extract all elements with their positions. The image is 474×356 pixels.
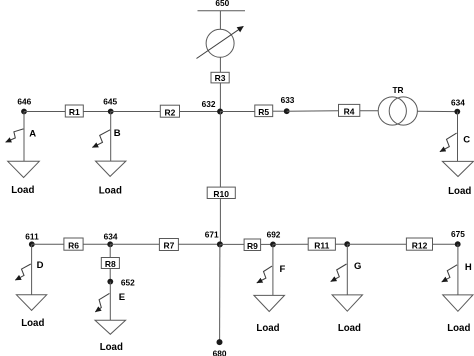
wire R5 to node 633 — [273, 110, 287, 112]
load G zigzag arrow — [331, 264, 347, 282]
load A triangle — [8, 161, 40, 177]
svg-text:R8: R8 — [105, 259, 116, 269]
junction node (load G) — [344, 241, 350, 247]
svg-text:R7: R7 — [163, 241, 174, 251]
load F — [254, 244, 286, 333]
svg-text:Load: Load — [11, 185, 34, 196]
regulator arrow — [197, 26, 244, 58]
wire 646 to R1 — [24, 111, 65, 113]
wire 692 to R11 — [273, 243, 308, 245]
resistor R9 — [244, 239, 261, 251]
transformer TR — [378, 97, 417, 125]
svg-text:645: 645 — [103, 97, 117, 107]
wire R3 to node 632 — [219, 83, 221, 112]
load F triangle — [254, 295, 285, 311]
wire R12 to node 675 — [433, 243, 458, 245]
wire R2 to node 632 — [180, 111, 221, 113]
svg-text:Load: Load — [447, 323, 470, 334]
svg-text:H: H — [465, 262, 472, 273]
wire 632 to R5 — [220, 111, 255, 113]
svg-text:D: D — [37, 260, 44, 271]
node 611 — [29, 241, 35, 247]
node 633 — [284, 108, 290, 114]
resistor R10 — [207, 187, 235, 199]
load D zigzag arrow — [15, 264, 30, 280]
resistor R2 — [160, 105, 179, 117]
wire junction to R12 — [347, 243, 406, 245]
node 634 (bottom) — [107, 241, 113, 247]
wire R4 to transformer TR — [360, 110, 379, 112]
svg-text:A: A — [29, 129, 36, 140]
load H triangle — [443, 295, 473, 311]
load D — [15, 244, 46, 329]
wire 634 top down — [457, 112, 459, 162]
wire R10 to node 671 — [219, 199, 221, 245]
load E — [95, 282, 126, 353]
bus 650 bar — [198, 10, 246, 12]
svg-text:611: 611 — [25, 231, 39, 241]
svg-text:G: G — [354, 261, 361, 272]
svg-text:675: 675 — [451, 229, 465, 239]
load B — [92, 112, 126, 197]
wire 645 down — [110, 112, 112, 162]
resistor R7 — [159, 239, 178, 251]
svg-text:R10: R10 — [213, 189, 229, 199]
node 692 — [270, 242, 276, 248]
svg-text:Load: Load — [21, 318, 44, 329]
node 675 — [455, 241, 461, 247]
svg-text:632: 632 — [202, 99, 216, 109]
wire regulator to R3 — [219, 57, 221, 72]
svg-text:R2: R2 — [164, 107, 175, 117]
node 671 — [217, 241, 223, 247]
svg-text:Load: Load — [338, 323, 361, 334]
load B triangle — [96, 161, 126, 176]
wire 671 to R9 — [220, 243, 244, 245]
wire 611 to R6 — [32, 243, 64, 245]
node 632 — [217, 109, 223, 115]
svg-text:R4: R4 — [344, 107, 355, 117]
wire bus650 to regulator — [219, 11, 221, 30]
svg-text:634: 634 — [451, 98, 465, 108]
wire 645 to R2 — [111, 111, 161, 113]
load A — [6, 112, 40, 196]
node 646 — [21, 109, 27, 115]
svg-text:R3: R3 — [215, 73, 226, 83]
load E triangle — [95, 320, 126, 334]
resistor R1 — [65, 105, 83, 117]
svg-text:R5: R5 — [258, 107, 269, 117]
resistor R11 — [308, 238, 335, 250]
wire 675 down — [457, 244, 459, 295]
resistor R3 — [211, 72, 229, 83]
load G — [331, 244, 363, 334]
svg-text:650: 650 — [215, 0, 229, 8]
node 634 (top) — [454, 109, 460, 115]
wire R6 to node 634 bottom — [83, 243, 110, 245]
wire TR to node 634 — [417, 110, 457, 112]
wire R11 to junction node — [335, 243, 347, 245]
svg-text:TR: TR — [392, 85, 403, 95]
wire 632 to R10 — [219, 112, 221, 188]
wire R7 to node 671 — [178, 243, 219, 245]
load C zigzag arrow — [440, 133, 457, 152]
load E zigzag arrow — [95, 293, 109, 312]
regulator circle — [206, 29, 234, 57]
resistor R4 — [339, 104, 360, 116]
load B zigzag arrow — [92, 130, 110, 148]
wire 611 down — [31, 244, 33, 294]
svg-text:C: C — [463, 134, 470, 145]
svg-text:671: 671 — [205, 230, 219, 240]
svg-text:Load: Load — [100, 342, 123, 353]
svg-text:646: 646 — [17, 97, 31, 107]
svg-text:R11: R11 — [314, 240, 329, 250]
wire 671 to node 680 — [219, 244, 221, 342]
svg-text:634: 634 — [104, 231, 118, 241]
load C — [440, 112, 474, 198]
svg-text:680: 680 — [213, 348, 227, 356]
resistor R12 — [406, 238, 432, 250]
svg-text:B: B — [114, 128, 121, 139]
load H — [442, 244, 473, 334]
svg-text:R1: R1 — [69, 107, 80, 117]
load F zigzag arrow — [257, 266, 272, 283]
wire junction down — [346, 244, 348, 295]
load A zigzag arrow — [6, 129, 24, 142]
wire R9 to node 692 — [261, 243, 273, 245]
load H zigzag arrow — [442, 265, 457, 282]
node 645 — [108, 109, 114, 115]
svg-text:R9: R9 — [247, 241, 258, 251]
wire R8 to node 652 — [109, 269, 111, 282]
svg-text:F: F — [280, 264, 286, 275]
svg-text:652: 652 — [121, 278, 135, 288]
load D triangle — [16, 295, 46, 311]
node 652 — [107, 279, 113, 285]
resistor R6 — [64, 238, 83, 250]
wire 634 to R7 — [110, 243, 159, 245]
wire 646 down — [23, 112, 25, 162]
svg-text:R12: R12 — [412, 240, 428, 250]
load G triangle — [332, 295, 362, 311]
node 680 — [217, 339, 223, 345]
wire 652 down — [109, 282, 111, 321]
wire 633 to R4 — [287, 110, 339, 112]
wire 692 down — [272, 244, 274, 295]
svg-text:Load: Load — [256, 323, 279, 334]
svg-text:E: E — [119, 292, 125, 303]
wire 634 down to R8 — [109, 244, 111, 257]
svg-text:692: 692 — [267, 230, 281, 240]
svg-text:633: 633 — [281, 95, 295, 105]
resistor R8 branch — [101, 244, 135, 287]
svg-text:Load: Load — [448, 186, 471, 197]
load C triangle — [442, 161, 473, 176]
resistor R8 — [101, 258, 119, 269]
svg-text:R6: R6 — [68, 240, 79, 250]
resistor R5 — [255, 105, 273, 117]
svg-text:Load: Load — [99, 186, 122, 197]
wire R1 to node 645 — [83, 111, 110, 113]
